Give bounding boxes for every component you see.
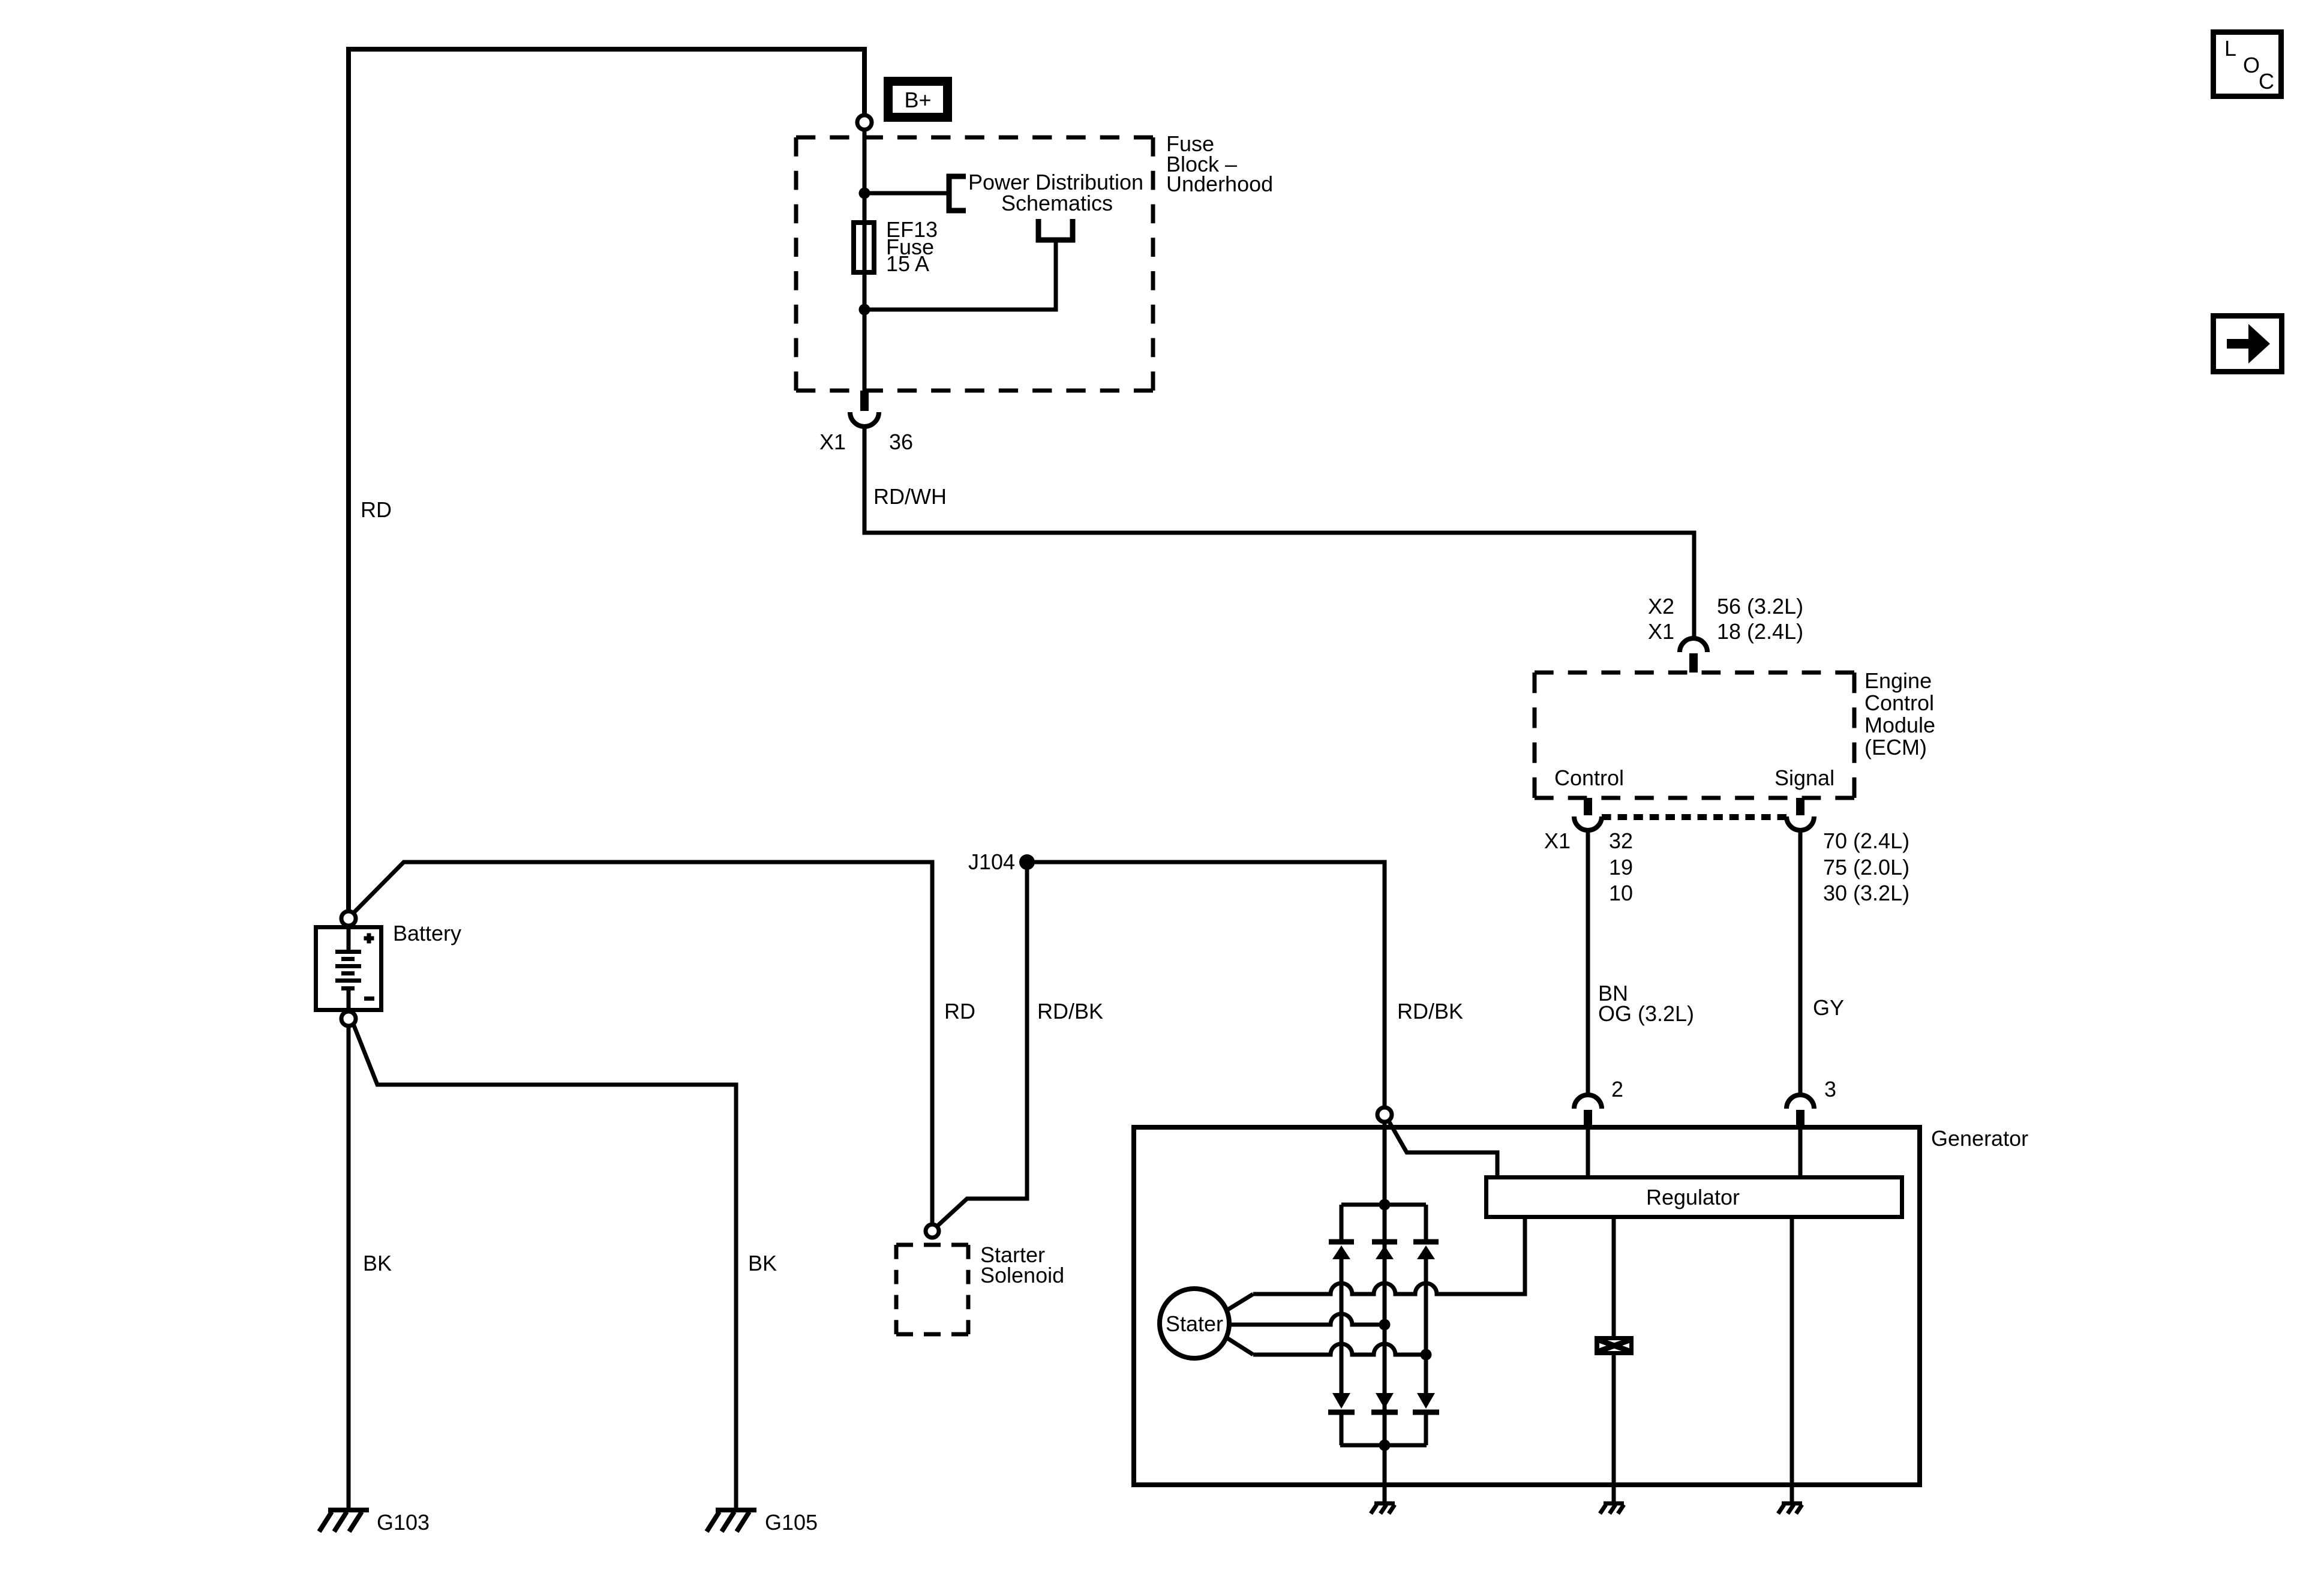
svg-text:L: L — [2224, 36, 2236, 61]
svg-text:G103: G103 — [377, 1510, 430, 1535]
starter solenoid terminal circle — [926, 1224, 939, 1238]
diode top-left cathode bar — [1329, 1239, 1354, 1245]
rectifier bottom rail — [1340, 1443, 1427, 1448]
svg-text:GY: GY — [1813, 995, 1844, 1020]
generator box — [1134, 1127, 1920, 1485]
svg-text:RD/BK: RD/BK — [1037, 999, 1103, 1023]
wire BK: battery negative to G105 — [353, 1024, 736, 1508]
svg-text:70 (2.4L): 70 (2.4L) — [1823, 828, 1909, 853]
fuse EF13 15A body — [854, 223, 874, 272]
svg-text:X1: X1 — [1544, 828, 1571, 853]
diode bottom-left triangle — [1332, 1393, 1350, 1409]
ECM dashed box — [1535, 671, 1854, 675]
LOC reference box — [2214, 32, 2281, 97]
wire RD/WH: from X1-36 down, right, down to ECM connector — [864, 427, 1694, 638]
B+ stud symbol box — [888, 82, 948, 118]
svg-text:(ECM): (ECM) — [1864, 735, 1927, 760]
svg-text:75 (2.0L): 75 (2.0L) — [1823, 855, 1909, 879]
connector stub Control — [1584, 798, 1592, 815]
svg-text:X2: X2 — [1648, 594, 1674, 619]
svg-text:Engine: Engine — [1864, 668, 1932, 693]
stator phase B lead — [1229, 1323, 1253, 1327]
stator phase C lead — [1227, 1338, 1253, 1355]
svg-text:Module: Module — [1864, 713, 1935, 737]
wire phase B with hop to center leg — [1253, 1314, 1385, 1325]
diode top-left triangle — [1332, 1245, 1350, 1259]
svg-text:B+: B+ — [904, 88, 931, 112]
wire: regulator to field ground — [1612, 1219, 1616, 1337]
wire: pin 2 to regulator — [1586, 1128, 1590, 1175]
battery box — [316, 927, 382, 1010]
connector arc Signal — [1786, 816, 1814, 830]
svg-text:18 (2.4L): 18 (2.4L) — [1717, 619, 1803, 644]
wire: branch to power distribution schematics bracket — [864, 191, 947, 196]
diode top-right cathode bar — [1413, 1239, 1439, 1245]
svg-text:BK: BK — [748, 1251, 777, 1275]
svg-text:Control: Control — [1554, 766, 1624, 790]
rectifier left leg — [1340, 1205, 1344, 1445]
connector pin 3 stub — [1796, 1110, 1804, 1128]
wire RD/BK: J104 to generator B+ — [1027, 862, 1385, 1106]
rectifier right leg — [1424, 1205, 1428, 1445]
diode bottom-right triangle — [1417, 1393, 1435, 1409]
svg-text:Battery: Battery — [393, 921, 461, 945]
battery minus sign — [364, 996, 374, 1001]
wire phase A with hops to regulator — [1253, 1219, 1525, 1294]
ground (rectifier) — [1371, 1503, 1395, 1514]
connector X1 pin 36 arc — [850, 412, 879, 427]
diode bottom-right cathode bar — [1413, 1410, 1439, 1415]
svg-text:Generator: Generator — [1931, 1126, 2028, 1151]
svg-text:Schematics: Schematics — [1001, 191, 1113, 215]
svg-text:15 A: 15 A — [886, 251, 929, 276]
diode bottom-center cathode bar — [1371, 1410, 1398, 1415]
svg-text:Stater: Stater — [1166, 1311, 1223, 1336]
wire RD: battery positive to starter solenoid drop — [353, 862, 932, 1225]
wire RD: battery positive feed, up left side, across top, down to B+ terminal — [349, 49, 864, 909]
svg-text:30 (3.2L): 30 (3.2L) — [1823, 881, 1909, 905]
junction dot above fuse — [859, 188, 870, 199]
wire: pin 3 to regulator — [1798, 1128, 1803, 1175]
ground (regulator) — [1778, 1503, 1802, 1514]
diode bottom-center triangle — [1376, 1393, 1394, 1409]
connector stub into ECM — [1689, 653, 1698, 673]
junction dot bottom rail — [1379, 1440, 1391, 1451]
junction dot top rail — [1379, 1199, 1391, 1211]
connector pin 3 arc — [1786, 1095, 1814, 1109]
field element box (bowtie) — [1595, 1336, 1634, 1355]
battery plus sign — [364, 933, 374, 944]
svg-text:C: C — [2259, 69, 2274, 94]
terminal circle at B+ stud — [857, 115, 872, 130]
svg-text:Underhood: Underhood — [1166, 172, 1273, 196]
svg-text:BK: BK — [363, 1251, 392, 1275]
ground G105 — [707, 1510, 756, 1532]
diode bottom-left cathode bar — [1328, 1410, 1355, 1415]
ground (field) — [1600, 1503, 1624, 1514]
svg-text:56 (3.2L): 56 (3.2L) — [1717, 594, 1803, 619]
arrow navigation box — [2214, 316, 2282, 372]
svg-text:X1: X1 — [1648, 619, 1674, 644]
connector dotted link X1 — [1602, 814, 1786, 820]
wire: generator B+ feed to regulator — [1388, 1120, 1497, 1175]
svg-text:32: 32 — [1609, 828, 1633, 853]
connector arc into ECM — [1680, 638, 1707, 652]
svg-text:O: O — [2243, 53, 2260, 77]
generator B+ terminal circle — [1377, 1107, 1392, 1122]
connector X1 pin 36 stub — [860, 391, 869, 411]
wire GY: ECM Signal to generator pin 3 — [1798, 830, 1803, 1095]
battery internal top stub — [347, 929, 351, 950]
wire: bowtie to ground — [1612, 1355, 1616, 1503]
starter solenoid dashed box — [896, 1243, 968, 1247]
diode top-right triangle — [1417, 1245, 1435, 1259]
svg-text:G105: G105 — [765, 1510, 818, 1535]
wire: rectifier center leg to case ground — [1383, 1445, 1387, 1503]
rectifier top rail — [1341, 1203, 1426, 1207]
battery internal bottom stub — [347, 989, 351, 1010]
connector pin 2 arc — [1574, 1095, 1602, 1109]
svg-text:3: 3 — [1824, 1077, 1836, 1101]
wire phase C with hops to right leg — [1253, 1344, 1426, 1355]
wire: regulator right to ground — [1790, 1219, 1794, 1503]
diode top-center triangle — [1376, 1245, 1394, 1259]
svg-text:Signal: Signal — [1774, 766, 1834, 790]
junction J104 dot — [1019, 854, 1035, 870]
svg-text:Control: Control — [1864, 691, 1934, 715]
svg-text:Solenoid: Solenoid — [980, 1263, 1064, 1287]
fuse block underhood dashed box — [796, 136, 1153, 140]
svg-text:36: 36 — [889, 430, 913, 454]
svg-text:RD/BK: RD/BK — [1397, 999, 1463, 1023]
svg-text:2: 2 — [1611, 1077, 1623, 1101]
junction dot phase C — [1421, 1349, 1432, 1361]
battery positive terminal circle — [341, 911, 356, 926]
wire RD/BK: J104 drop to starter solenoid — [937, 862, 1027, 1226]
wire: B+ terminal down through fuse EF13 inside fuse block — [863, 130, 867, 391]
wire: generator B+ into rectifier center leg — [1383, 1122, 1387, 1445]
stator phase A lead — [1227, 1294, 1253, 1310]
bracket [ for Power Distribution Schematics — [949, 176, 966, 211]
bracket under Schematics — [1038, 219, 1073, 240]
wire: from bracket down and left to fuse output — [864, 240, 1056, 310]
regulator box — [1487, 1178, 1902, 1217]
svg-text:Regulator: Regulator — [1646, 1185, 1740, 1209]
ground G103 — [319, 1510, 369, 1532]
svg-text:RD: RD — [361, 497, 392, 522]
svg-text:19: 19 — [1609, 855, 1633, 879]
wire BN/OG: ECM Control to generator pin 2 — [1586, 830, 1590, 1095]
stator circle — [1160, 1289, 1229, 1358]
connector pin 2 stub — [1584, 1110, 1592, 1128]
junction dot below fuse — [859, 304, 870, 316]
svg-text:OG (3.2L): OG (3.2L) — [1598, 1001, 1694, 1026]
junction dot phase B — [1379, 1319, 1391, 1331]
svg-text:X1: X1 — [819, 430, 846, 454]
battery plates — [335, 952, 361, 989]
battery negative terminal circle — [341, 1011, 356, 1026]
svg-text:RD/WH: RD/WH — [873, 484, 947, 509]
svg-text:J104: J104 — [968, 849, 1015, 874]
connector stub Signal — [1796, 798, 1804, 815]
connector arc Control — [1574, 816, 1602, 830]
wire BK: battery negative to G103 — [347, 1026, 351, 1508]
diode top-center cathode bar — [1372, 1239, 1397, 1245]
svg-text:RD: RD — [944, 999, 975, 1023]
svg-text:10: 10 — [1609, 881, 1633, 905]
